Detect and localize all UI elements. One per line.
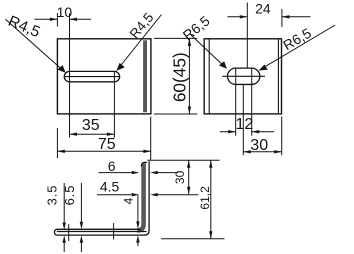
svg-text:35: 35 (82, 117, 100, 134)
slot cap-centre extension lines (dim 12) (236, 68, 252, 136)
top extension line of L view (dims 30 / 61,2) (147, 159, 219, 161)
dimension 4 vertical line + outside arrows (137, 195, 139, 246)
L-profile top cap of vertical leg (141, 162, 147, 166)
extension line right edge down (dim 30) (281, 117, 283, 156)
inner bend lines of side view (209, 39, 278, 114)
slot centre line (front view) (64, 76, 120, 78)
extension line left edge up (dim 10) (56, 13, 58, 27)
bottom extension line (dim 61,2) (161, 238, 225, 240)
bend line (thick gray) in front view (143, 40, 147, 112)
dimension 60(45) line + arrows (188, 38, 190, 114)
svg-text:R6,5: R6,5 (280, 25, 314, 54)
svg-text:R4,5: R4,5 (6, 13, 43, 41)
extension line slot-left (dims 10/35) (69, 13, 71, 137)
slot centre vertical extension (dim 30) (242, 85, 244, 156)
svg-text:24: 24 (255, 1, 271, 17)
dimension 6,5 line + outside arrows (80, 183, 82, 252)
svg-text:30: 30 (250, 137, 268, 154)
dimension 3,5 line + outside arrows (63, 183, 65, 252)
L-profile side view: vertical leg gray face (137, 163, 143, 230)
dimension 75 line + arrows (57, 150, 150, 152)
leader R6,5 left (191, 35, 224, 66)
dimension 61,2 vertical line + arrows (210, 160, 212, 239)
dimension 30 vertical line + arrows (L view) (188, 160, 190, 194)
dimension 35 line + arrows (70, 133, 115, 135)
tick crossing horizontal leg (slot-right extension) (113, 223, 115, 239)
leader R6,5 right (262, 25, 335, 68)
leader R4,5 left (6, 19, 63, 69)
svg-text:75: 75 (98, 136, 116, 153)
svg-text:6.5: 6.5 (62, 185, 77, 206)
dimension 6 line + outside arrows (99, 172, 179, 174)
dimension 24 line + outside arrows (228, 16, 311, 18)
front view outline (left rectangle 75x60) (57, 39, 150, 114)
extension lines for dim 75 (57, 117, 150, 161)
dimension 12 line + outside arrows (220, 131, 274, 133)
slot (obround R4,5) in front view (64, 71, 119, 81)
svg-text:61,2: 61,2 (198, 186, 212, 210)
L-profile outer black face (right of leg, bend and bottom line) (57, 161, 149, 235)
svg-text:4.5: 4.5 (100, 178, 120, 194)
svg-text:12: 12 (236, 116, 254, 133)
extension lines for dim 24 (247, 3, 282, 69)
tick crossing horizontal leg (slot-left extension) (68, 224, 70, 241)
svg-text:10: 10 (57, 4, 73, 20)
dimension 10 line + outside arrows (35, 18, 92, 20)
svg-text:4: 4 (122, 197, 136, 204)
dimension 4.5 line + outside arrows (also 30 bottom extension) (97, 194, 198, 196)
svg-text:60(45): 60(45) (170, 52, 190, 102)
extension lines for dim 60(45) (154, 38, 198, 114)
side view (right rectangle) outline (204, 39, 281, 114)
extension line slot-right (dim 35) (113, 71, 115, 138)
L-profile horizontal leg top double lines + left cap (54, 229, 146, 235)
slot (obround R6,5) in side view (227, 68, 259, 84)
dimension 30 line + arrows (side view) (243, 151, 281, 153)
svg-text:3.5: 3.5 (45, 185, 60, 206)
leader R4,5 right (120, 15, 162, 68)
svg-text:6: 6 (108, 158, 116, 174)
slot centre line (side view) (222, 75, 265, 77)
svg-text:30: 30 (173, 170, 187, 184)
